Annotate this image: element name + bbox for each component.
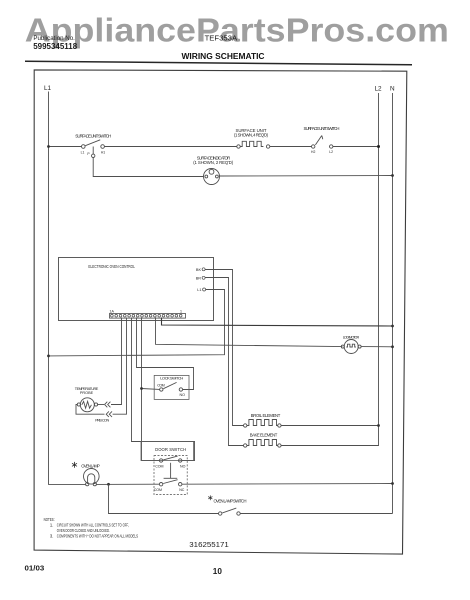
rail L1 [48, 92, 50, 485]
node junction lock COM wire [140, 387, 143, 390]
svg-text:N: N [390, 86, 395, 93]
node junction door NC/N [391, 482, 394, 485]
svg-text:BROIL ELEMENT: BROIL ELEMENT [251, 413, 281, 418]
svg-text:COM: COM [154, 488, 162, 492]
svg-text:5995345118: 5995345118 [33, 42, 78, 51]
svg-text:NC: NC [179, 488, 185, 492]
probe connector chevrons [105, 402, 112, 417]
svg-text:COM: COM [157, 383, 165, 387]
surface unit switch S2 [312, 136, 333, 149]
svg-text:(1 SHOWN, 4 REQ'D): (1 SHOWN, 4 REQ'D) [234, 133, 269, 138]
node junction switch S2/L2 [377, 145, 380, 148]
thermistor temperature probe [76, 398, 105, 414]
wire EOC terminal to lock motor [156, 318, 343, 347]
svg-text:1A: 1A [110, 309, 115, 313]
door switch upper contacts COM/NO [159, 456, 181, 462]
door switch plunger [164, 463, 178, 479]
svg-text:DOOR SWITCH: DOOR SWITCH [155, 447, 186, 452]
rail L2 [378, 93, 380, 446]
door switch dashed body [154, 456, 187, 495]
svg-text:SURFACE UNIT SWITCH: SURFACE UNIT SWITCH [75, 133, 111, 138]
wire switch S2 to L2 rail [333, 146, 379, 148]
title rule [25, 61, 412, 65]
wire L1 to surface unit switch [49, 146, 82, 148]
svg-text:OVEN LAMP: OVEN LAMP [81, 463, 100, 468]
svg-text:NO: NO [180, 465, 186, 469]
wire bake to L2 rail end [281, 445, 379, 447]
schematic border [34, 70, 407, 554]
svg-text:H1: H1 [101, 150, 105, 154]
svg-text:1: 1 [180, 309, 182, 313]
node junction on L1 rail [47, 355, 50, 358]
wire EOC terminal to N rail [162, 318, 393, 327]
op-amp/EOC box U1 [59, 258, 214, 321]
svg-text:1.: 1. [50, 522, 54, 527]
wire EOC terminal to probe top connector [111, 318, 122, 405]
asterisk for oven lamp switch [208, 495, 212, 500]
wire EOC terminal to lock switch COM and door switch COM [142, 318, 160, 461]
svg-text:ELECTRONIC OVEN CONTROL: ELECTRONIC OVEN CONTROL [88, 264, 135, 269]
switch oven lamp switch [219, 508, 241, 515]
svg-text:NO: NO [180, 393, 186, 397]
svg-text:10: 10 [213, 567, 223, 576]
svg-text:01/03: 01/03 [25, 564, 45, 573]
svg-text:BAKE ELEMENT: BAKE ELEMENT [250, 432, 278, 437]
svg-text:PROBE: PROBE [80, 391, 94, 395]
svg-text:L2: L2 [375, 86, 383, 93]
svg-text:(1 SHOWN, 2 REQ'D): (1 SHOWN, 2 REQ'D) [193, 160, 234, 165]
node junction motor/N [391, 345, 394, 348]
wire L1 pin to L1 rail (long line) [49, 290, 225, 356]
node junction lamp switch riser [107, 483, 110, 486]
wire broil to L2 rail [281, 425, 378, 427]
svg-text:H2: H2 [311, 150, 315, 154]
svg-text:LOCK SWITCH: LOCK SWITCH [160, 375, 183, 380]
svg-text:TEF353A: TEF353A [205, 36, 238, 43]
EOC terminal strip [110, 314, 186, 319]
svg-text:L1: L1 [44, 85, 52, 92]
wire lamp to door switch lower COM [96, 483, 159, 485]
surface indicator lamp [204, 169, 220, 185]
wire door switch NC to N rail [182, 483, 393, 486]
EOC terminal circles [111, 314, 182, 317]
svg-text:BR: BR [196, 276, 202, 280]
svg-text:SURFACE UNIT SWITCH: SURFACE UNIT SWITCH [304, 126, 340, 131]
door switch label box [141, 442, 193, 461]
wire switch S1 to surface unit element [104, 146, 236, 148]
wire riser to oven lamp switch [109, 484, 219, 513]
node junction on L1 [47, 145, 50, 148]
rail N [392, 93, 394, 514]
motor M1 lock motor [341, 340, 361, 354]
svg-text:P: P [87, 152, 90, 156]
wire stub to lock switch COM [142, 388, 160, 391]
svg-text:LOCK MOTOR: LOCK MOTOR [343, 336, 360, 340]
wire P terminal drop to indicator line [93, 158, 203, 177]
svg-text:COMPONENTS WITH * DO NOT APPEA: COMPONENTS WITH * DO NOT APPEAR ON ALL M… [57, 534, 138, 539]
svg-text:NOTES:: NOTES: [44, 517, 55, 522]
asterisk for oven lamp [72, 462, 77, 468]
wire indicator to N rail [220, 175, 393, 178]
svg-text:316255171: 316255171 [189, 542, 229, 549]
wire EOC terminal to door switch NO [132, 318, 195, 461]
wire element to surface unit switch S2 [270, 146, 312, 148]
wire BR to riser [205, 278, 243, 446]
lock switch box [154, 375, 189, 399]
node junction indicator/N [391, 174, 394, 177]
lock switch contacts [160, 382, 183, 391]
node junction on N rail [391, 325, 394, 328]
wire BK to riser [205, 270, 243, 426]
svg-text:COM: COM [155, 465, 163, 469]
door switch lower contacts COM/NC [159, 480, 181, 486]
broil element [244, 420, 282, 428]
svg-text:BK: BK [196, 268, 202, 272]
wire oven lamp switch to N rail corner [240, 513, 392, 515]
surface unit switch S1 [82, 140, 105, 158]
node junction broil/L2 [377, 424, 380, 427]
bake element [244, 440, 282, 448]
svg-text:3.: 3. [50, 534, 54, 539]
svg-text:OVEN DOOR CLOSED AND UNLOCKED.: OVEN DOOR CLOSED AND UNLOCKED. [57, 528, 110, 533]
wire L1 rail to lamp line [48, 483, 86, 485]
svg-text:L1: L1 [81, 150, 85, 154]
svg-text:PRB CON: PRB CON [95, 419, 109, 423]
svg-text:L1: L1 [197, 288, 201, 292]
svg-text:WIRING SCHEMATIC: WIRING SCHEMATIC [182, 52, 265, 61]
svg-text:CIRCUIT SHOWN WITH ALL CONTROL: CIRCUIT SHOWN WITH ALL CONTROLS SET TO O… [57, 522, 129, 527]
svg-text:AppliancePartsPros.com: AppliancePartsPros.com [25, 13, 449, 50]
wire EOC terminal to probe bottom connector [113, 318, 127, 415]
svg-text:OVEN LAMP SWITCH: OVEN LAMP SWITCH [214, 499, 247, 504]
wire EOC terminal to lock switch NO [137, 318, 194, 390]
surface unit element [237, 141, 270, 148]
wire lock motor to N rail [361, 346, 392, 348]
publication number [33, 35, 78, 51]
svg-text:L2: L2 [329, 150, 333, 154]
lamp DS1 oven lamp [84, 469, 100, 486]
